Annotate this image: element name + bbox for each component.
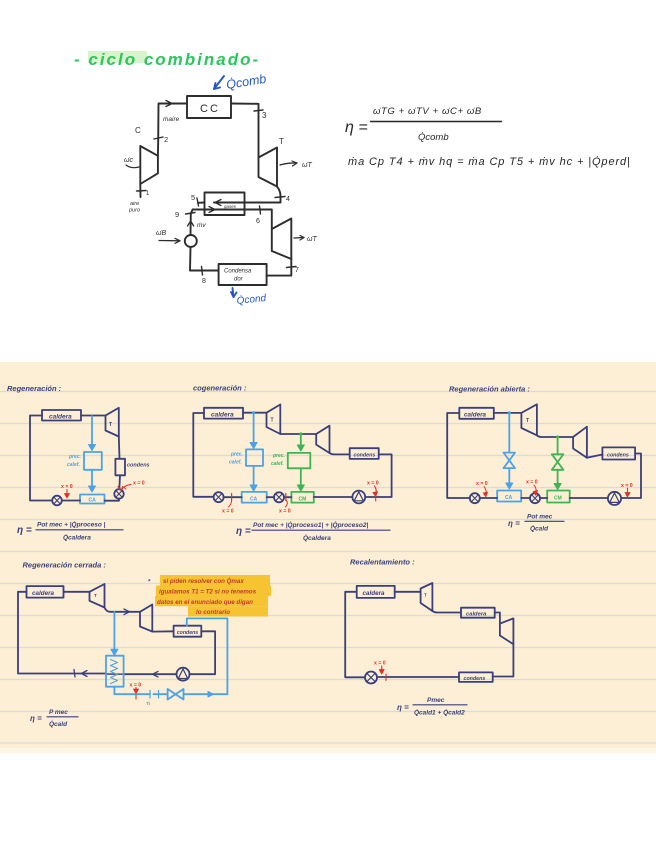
svg-text:ω̇c: ω̇c <box>124 157 133 164</box>
steam turbine TV <box>272 219 292 260</box>
cream note background <box>0 362 656 752</box>
pump 1 <box>470 493 480 503</box>
boiler caldera 1 <box>357 586 395 598</box>
quality note x=0 pump3 red <box>367 481 379 502</box>
wire CA to pump 1 <box>224 496 242 498</box>
wire pump 2 to CA <box>105 499 120 501</box>
wire turbine to condenser <box>118 437 121 459</box>
flow arrow left <box>82 671 88 677</box>
steam line 9 to 6 <box>193 210 272 230</box>
svg-text:- ciclo combinado-: - ciclo combinado- <box>74 50 260 69</box>
pump 2 <box>274 492 284 502</box>
efficiency formula 3 <box>508 514 553 533</box>
wire feed loop left <box>18 592 106 674</box>
wire pump to heat exchanger <box>124 673 177 675</box>
quality note x=0 left red <box>61 484 73 498</box>
bottom wire pump3 to CM <box>314 496 353 498</box>
condenser <box>115 459 125 476</box>
wire pump2 to CA <box>521 497 530 499</box>
wire turbine 2 to condenser <box>330 453 350 454</box>
node tick <box>74 670 75 678</box>
condenser <box>602 447 635 459</box>
svg-text:η =: η = <box>17 525 32 536</box>
svg-text:condens: condens <box>127 463 150 469</box>
svg-text:Ti: Ti <box>146 701 150 707</box>
pump 3 <box>608 492 621 505</box>
turbine 1 <box>521 404 537 435</box>
svg-text:puro: puro <box>128 208 140 214</box>
svg-text:Q̇caldera: Q̇caldera <box>303 534 331 542</box>
efficiency equation <box>345 106 502 143</box>
svg-text:CM: CM <box>554 496 562 502</box>
svg-text:9: 9 <box>175 210 179 219</box>
efficiency formula 2 <box>236 521 368 542</box>
svg-text:Condensa: Condensa <box>224 269 252 275</box>
turbine work wT <box>280 163 297 165</box>
svg-text:caldera: caldera <box>211 412 234 419</box>
node green junction <box>299 432 302 435</box>
wire 2 to CC <box>158 104 187 141</box>
svg-text:Q̇cald: Q̇cald <box>530 525 549 533</box>
wire reheater to turbine 2 <box>495 613 500 624</box>
svg-text:calef.: calef. <box>229 460 242 466</box>
svg-text:Regeneración cerrada :: Regeneración cerrada : <box>23 561 107 570</box>
svg-text:gases: gases <box>224 204 237 209</box>
wire turbine1 to reheater <box>432 611 461 613</box>
svg-text:Pot mec + |Q̇proceso |: Pot mec + |Q̇proceso | <box>37 521 106 529</box>
extraction 1 blue with valve <box>504 414 516 489</box>
yellow note highlight <box>155 575 271 617</box>
wire caldera to turbine 1 <box>243 412 267 414</box>
node 3 <box>254 110 263 111</box>
node 5 <box>198 202 205 204</box>
turbine 1 <box>267 405 281 435</box>
extraction 2 green with valve <box>552 438 564 490</box>
svg-text:calef.: calef. <box>67 462 80 468</box>
wire turbine1 to turbine2 <box>537 435 573 437</box>
reheater caldera 2 <box>461 608 495 618</box>
heat output Qcond <box>231 288 267 307</box>
preheater 1 blue <box>246 449 263 466</box>
valve blue <box>168 689 176 700</box>
svg-text:datos en el enunciado que diga: datos en el enunciado que digan <box>157 599 253 606</box>
svg-text:caldera: caldera <box>49 414 72 421</box>
wire caldera to turbine <box>81 415 106 417</box>
svg-text:condens: condens <box>464 676 486 682</box>
boiler caldera <box>42 410 81 421</box>
svg-text:7: 7 <box>295 267 299 274</box>
compressor C <box>157 140 159 156</box>
open heater CA blue <box>497 491 521 502</box>
node 4 <box>275 197 285 198</box>
svg-text:prec.: prec. <box>68 454 81 460</box>
gas turbine T <box>259 148 278 187</box>
flow arrow into hx <box>153 671 159 677</box>
svg-text:lo contrario: lo contrario <box>196 609 230 616</box>
wire turbine2 to condenser <box>587 455 603 458</box>
quality x=0 after pump2 red <box>279 494 291 515</box>
svg-text:prec.: prec. <box>272 453 285 459</box>
efficiency formula 1 <box>17 521 106 542</box>
svg-text:η =: η = <box>236 526 251 537</box>
svg-text:η =: η = <box>345 119 368 136</box>
svg-text:igualamos T1 = T2 si no tenemo: igualamos T1 = T2 si no tenemos <box>159 589 257 596</box>
HRSG heat exchanger box <box>205 193 245 216</box>
svg-text:T: T <box>271 418 274 424</box>
extraction 2 green <box>297 435 304 451</box>
svg-text:x = 0: x = 0 <box>374 661 386 667</box>
svg-text:x = 0: x = 0 <box>279 509 291 515</box>
quality x=0 pump2 red <box>526 480 538 496</box>
svg-text:Recalentamiento :: Recalentamiento : <box>350 558 415 567</box>
node Ti tick blue <box>149 691 151 699</box>
wire pump3 to CM <box>570 497 608 499</box>
svg-text:aire: aire <box>130 201 139 207</box>
svg-text:ṁaire: ṁaire <box>163 116 180 123</box>
wire 4 to HRSG <box>214 187 281 203</box>
svg-text:x = 0: x = 0 <box>222 509 234 515</box>
quality x=0 red <box>130 683 142 700</box>
heater CM green <box>291 492 313 503</box>
efficiency formula 4 <box>30 709 68 728</box>
quality x=0 after pump1 red <box>222 494 234 515</box>
svg-text:CA: CA <box>505 495 513 501</box>
wire CM to pump2 <box>540 497 547 499</box>
svg-text:T: T <box>109 422 112 428</box>
svg-text:caldera: caldera <box>464 412 487 419</box>
pump B <box>185 235 197 247</box>
svg-text:si piden resolver con Q̇max: si piden resolver con Q̇max <box>163 578 244 585</box>
svg-text:caldera: caldera <box>363 590 386 597</box>
svg-text:caldera: caldera <box>32 590 55 597</box>
ruled lines <box>0 392 656 744</box>
wire preheater to CA blue <box>89 470 96 492</box>
drain riser blue <box>187 618 228 694</box>
boiler caldera <box>27 586 64 598</box>
open heater CA blue <box>80 495 105 504</box>
combustion chamber CC <box>187 96 231 118</box>
closed heater with coil blue <box>106 656 124 687</box>
svg-text:x = 0: x = 0 <box>476 481 488 487</box>
condenser <box>174 626 202 637</box>
svg-text:Regeneración :: Regeneración : <box>7 384 62 393</box>
wire feed loop left <box>30 416 52 501</box>
drain line blue <box>114 618 227 707</box>
wire 7 to condenser <box>267 259 292 276</box>
svg-text:x = 0: x = 0 <box>526 480 538 486</box>
svg-text:calef.: calef. <box>271 461 284 467</box>
valve green <box>552 454 564 462</box>
svg-text:dor: dor <box>234 277 244 283</box>
wire feed loop left <box>193 413 213 497</box>
svg-text:x = 0: x = 0 <box>133 481 145 487</box>
heater CM green <box>547 491 570 503</box>
wire caldera1 to turbine1 <box>395 591 421 593</box>
wire CM to pump 2 <box>284 496 291 498</box>
svg-text:Q̇caldera: Q̇caldera <box>63 534 91 542</box>
svg-text:T: T <box>424 593 427 598</box>
quality x=0 pump3 red <box>621 483 633 497</box>
wire caldera to turbine 1 <box>494 412 522 414</box>
pump <box>365 672 377 684</box>
title highlight <box>88 51 147 63</box>
svg-text:3: 3 <box>262 111 267 120</box>
svg-text:caldera: caldera <box>466 612 487 618</box>
svg-text:CA: CA <box>250 496 258 502</box>
wire pump to 8 <box>190 247 219 271</box>
wire feed loop left <box>345 592 365 678</box>
svg-text:ω̇TG + ω̇TV + ω̇C+ ω̇B: ω̇TG + ω̇TV + ω̇C+ ω̇B <box>373 106 482 117</box>
svg-text:Q̇cald1 + Q̇cald2: Q̇cald1 + Q̇cald2 <box>414 709 465 717</box>
energy balance equation <box>348 155 631 168</box>
svg-text:condens: condens <box>354 452 376 458</box>
wire hx internal <box>106 673 124 675</box>
wire feed loop left <box>447 413 470 498</box>
wire CA to pump1 <box>480 497 497 499</box>
node blue junction <box>508 411 511 414</box>
svg-text:Q̇comb: Q̇comb <box>418 132 449 143</box>
svg-text:η =: η = <box>508 519 520 528</box>
extraction line blue <box>89 416 96 451</box>
svg-text:6: 6 <box>256 218 260 225</box>
svg-text:CC: CC <box>200 103 220 115</box>
boiler caldera <box>204 408 243 419</box>
svg-text:4: 4 <box>286 196 290 203</box>
wire condenser to pump <box>377 676 459 678</box>
svg-text:ṁa Cp T4 + ṁv hq = ṁa Cp T5 +: ṁa Cp T4 + ṁv hq = ṁa Cp T5 + ṁv hc + |Q… <box>348 155 631 168</box>
condenser <box>350 448 379 459</box>
preheater 2 green <box>288 453 311 468</box>
turbine 2 <box>140 605 152 632</box>
node green junction <box>556 435 559 438</box>
extraction line blue top <box>111 612 118 656</box>
turbine 2 <box>573 427 587 458</box>
svg-text:Pmec: Pmec <box>427 697 445 704</box>
quality x=0 pump1 red <box>476 481 488 497</box>
extraction 1 blue <box>250 414 257 449</box>
svg-text:2: 2 <box>164 135 168 144</box>
svg-text:cogeneración :: cogeneración : <box>193 384 247 393</box>
turbine 2 <box>500 618 514 644</box>
turbine work wTv <box>294 237 304 240</box>
svg-text:x = 0: x = 0 <box>621 483 633 489</box>
pump 1 <box>52 496 62 506</box>
pump 2 <box>114 489 123 498</box>
wire pump2 to CA <box>267 496 274 498</box>
quality note x=0 right red <box>118 481 145 491</box>
steam riser from pump <box>191 210 193 235</box>
turbine 1 <box>90 584 105 608</box>
wire preheater1 to CA blue <box>250 466 257 491</box>
svg-text:Q̇cald: Q̇cald <box>49 720 68 728</box>
node 9 <box>186 213 196 215</box>
svg-text:T: T <box>94 593 97 598</box>
flow arrow right <box>124 609 130 615</box>
svg-text:Regeneración abierta :: Regeneración abierta : <box>449 385 530 394</box>
condenser <box>459 672 493 682</box>
svg-text:T: T <box>279 137 284 146</box>
condenser box <box>219 264 267 285</box>
wire turbine1 to turbine2 <box>280 433 316 435</box>
wire condenser to pump 2 <box>118 475 121 489</box>
svg-text:condens: condens <box>177 630 198 636</box>
yellow note text <box>157 578 257 616</box>
valve blue <box>504 453 516 461</box>
wire turbine2 to condenser <box>493 644 514 676</box>
node 1 inlet <box>139 184 141 197</box>
preheater box blue <box>84 452 102 470</box>
quality x=0 red <box>374 661 386 681</box>
svg-text:CA: CA <box>89 498 97 504</box>
turbine T <box>106 408 119 437</box>
wire preheater2 to CM green <box>297 468 304 491</box>
svg-text:ω̇T: ω̇T <box>302 162 312 169</box>
turbine 2 <box>316 426 329 453</box>
wire CA to pump 1 <box>62 500 80 502</box>
turbine 1 <box>421 583 433 611</box>
svg-text:x = 0: x = 0 <box>130 683 142 689</box>
gas flow arrow in HRSG <box>215 200 221 206</box>
svg-text:5: 5 <box>191 193 195 202</box>
svg-text:Pot mec: Pot mec <box>527 514 553 521</box>
node 6 <box>260 206 261 214</box>
wire CC to 3 <box>231 104 259 158</box>
svg-text:CM: CM <box>299 496 307 502</box>
svg-text:η =: η = <box>30 714 42 723</box>
pump 1 <box>214 492 224 502</box>
svg-text:condens: condens <box>607 452 629 458</box>
heat input label Qcomb <box>214 72 267 92</box>
open heater CA blue <box>242 492 267 503</box>
boiler caldera <box>459 408 494 419</box>
pump 2 <box>530 493 540 503</box>
svg-text:η =: η = <box>397 703 409 712</box>
svg-text:Pot mec + |Q̇proceso1| + |Q̇pr: Pot mec + |Q̇proceso1| + |Q̇proceso2| <box>253 521 368 529</box>
svg-text:ω̇B: ω̇B <box>156 230 166 237</box>
node blue junction <box>252 411 255 414</box>
wire condenser to pump 3 <box>621 454 641 499</box>
svg-text:prec.: prec. <box>230 452 243 458</box>
node 8 <box>202 267 203 276</box>
wire condenser to pump 3 <box>365 454 391 497</box>
svg-text:x = 0: x = 0 <box>367 481 379 487</box>
wire turbine1 to turbine2 <box>105 608 141 612</box>
wire turbine2 to condenser <box>152 630 173 632</box>
wire caldera to turbine 1 <box>64 591 90 593</box>
svg-text:C: C <box>135 126 141 135</box>
node 2 <box>154 137 163 139</box>
wire condenser to pump <box>190 631 215 674</box>
node 7 <box>287 267 297 268</box>
svg-text:P mec: P mec <box>49 709 68 716</box>
svg-text:T: T <box>526 418 529 424</box>
svg-text:ω̇T: ω̇T <box>307 236 317 243</box>
svg-text:ṁv: ṁv <box>197 222 206 229</box>
pump 3 <box>352 491 365 504</box>
efficiency formula 5 <box>397 697 465 717</box>
svg-text:8: 8 <box>202 278 206 285</box>
pump <box>177 668 190 681</box>
